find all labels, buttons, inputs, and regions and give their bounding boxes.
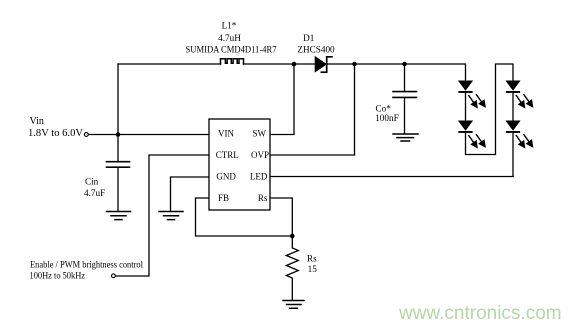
svg-text:CTRL: CTRL — [216, 150, 239, 160]
svg-text:VIN: VIN — [218, 129, 234, 139]
svg-text:100Hz to 50kHz: 100Hz to 50kHz — [30, 271, 86, 281]
svg-text:SUMIDA CMD4D11-4R7: SUMIDA CMD4D11-4R7 — [186, 44, 277, 54]
svg-text:GND: GND — [216, 171, 236, 181]
svg-text:4.7uF: 4.7uF — [84, 188, 105, 198]
svg-text:www.cntronics.com: www.cntronics.com — [398, 303, 562, 324]
svg-text:D1: D1 — [303, 33, 315, 43]
svg-text:1.8V to 6.0V: 1.8V to 6.0V — [28, 128, 84, 139]
svg-text:Vin: Vin — [30, 116, 44, 127]
svg-text:L1*: L1* — [222, 21, 237, 31]
svg-text:Enable / PWM brightness contro: Enable / PWM brightness control — [30, 260, 143, 270]
svg-text:SW: SW — [253, 129, 267, 139]
svg-text:Cin: Cin — [85, 177, 99, 187]
svg-text:LED: LED — [250, 171, 268, 181]
svg-text:4.7uH: 4.7uH — [218, 33, 241, 43]
svg-text:100nF: 100nF — [375, 113, 399, 123]
svg-text:OVP: OVP — [251, 150, 269, 160]
svg-text:ZHCS400: ZHCS400 — [297, 44, 335, 54]
svg-text:15: 15 — [308, 264, 318, 274]
svg-text:Rs: Rs — [307, 253, 317, 263]
svg-text:Rs: Rs — [258, 193, 268, 203]
svg-text:FB: FB — [218, 193, 229, 203]
